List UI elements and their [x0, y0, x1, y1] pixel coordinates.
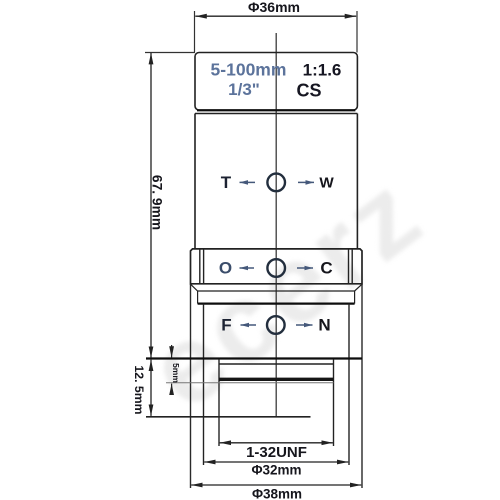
svg-text:12. 5mm: 12. 5mm — [132, 365, 146, 414]
dimension text Φ36mm — [248, 0, 300, 15]
dimension line 1-32UNF — [220, 442, 333, 444]
svg-text:5mm: 5mm — [171, 363, 181, 383]
rear plane line — [146, 416, 311, 418]
svg-text:F: F — [221, 316, 231, 335]
flange line (bottom of focus ring) — [146, 357, 362, 359]
svg-text:1:1.6: 1:1.6 — [303, 61, 342, 80]
svg-text:CS: CS — [296, 81, 321, 101]
dimension line 67.9mm — [150, 53, 152, 358]
extension line top for 67.9mm — [145, 52, 195, 54]
mount thread tube 1-32UNF — [166, 359, 334, 446]
svg-text:W: W — [319, 175, 334, 192]
zoom ring body — [195, 114, 357, 249]
label ring (front cap) outline — [195, 53, 357, 111]
svg-text:5-100mm: 5-100mm — [211, 60, 287, 80]
svg-text:T: T — [221, 173, 232, 192]
watermark — [127, 150, 446, 433]
dimension 5mm (outside arrows) — [171, 345, 173, 395]
centerline — [275, 33, 277, 417]
dimension line 12.5mm — [150, 360, 152, 416]
dimension line Φ36mm — [195, 15, 356, 17]
svg-text:Φ32mm: Φ32mm — [251, 463, 301, 478]
extension line left of Φ36 — [194, 11, 196, 53]
iris marks: O arrow circle arrow C — [219, 259, 333, 278]
dimension line Φ38mm — [191, 484, 361, 486]
focus marks: F arrow circle arrow N — [221, 316, 330, 335]
svg-text:C: C — [320, 259, 332, 278]
focus ring — [204, 304, 350, 465]
svg-text:1-32UNF: 1-32UNF — [246, 444, 307, 461]
svg-text:Φ38mm: Φ38mm — [252, 487, 302, 500]
svg-text:67. 9mm: 67. 9mm — [149, 175, 164, 230]
extension lines down from iris ring (Φ38) — [190, 284, 192, 488]
svg-text:N: N — [318, 316, 330, 335]
collar between iris and focus rings — [191, 284, 363, 303]
iris ring (Φ38 widest band) — [191, 249, 363, 284]
svg-text:Φ36mm: Φ36mm — [248, 0, 300, 15]
extension line right of Φ36 — [356, 11, 358, 53]
zoom marks: T arrow circle arrow W — [221, 173, 335, 192]
svg-text:O: O — [219, 259, 232, 278]
dimension line Φ32mm — [204, 461, 348, 463]
svg-text:1/3": 1/3" — [228, 80, 260, 99]
